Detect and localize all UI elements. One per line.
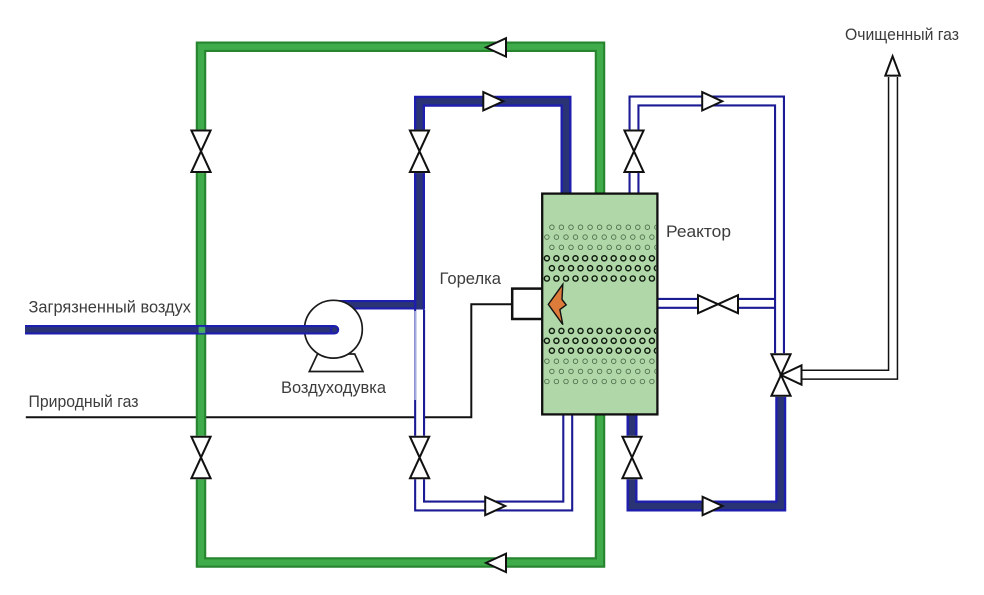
svg-text:Воздуходувка: Воздуходувка [281, 378, 387, 397]
svg-text:Реактор: Реактор [666, 222, 731, 241]
svg-text:Очищенный газ: Очищенный газ [845, 25, 959, 44]
svg-text:Загрязненный воздух: Загрязненный воздух [29, 298, 192, 317]
svg-text:Природный газ: Природный газ [29, 392, 139, 411]
svg-text:Горелка: Горелка [440, 269, 502, 288]
